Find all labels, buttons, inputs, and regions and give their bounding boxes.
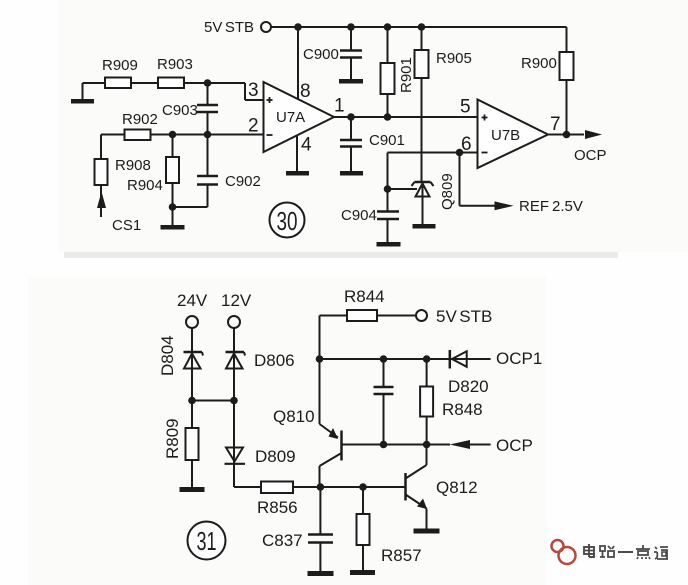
capacitor (unnamed, Q810 base) — [374, 359, 394, 445]
svg-text:7: 7 — [550, 114, 561, 135]
resistor R905 — [415, 27, 472, 181]
node 24V terminal — [177, 291, 208, 328]
svg-text:U7A: U7A — [276, 109, 305, 126]
node junction R904 top — [169, 131, 177, 139]
wire Q810 base / OCP rail — [343, 444, 451, 446]
ground under C900 — [339, 79, 363, 84]
svg-text:5VSTB: 5VSTB — [204, 19, 254, 36]
node junction R904 C902 — [169, 203, 177, 211]
resistor R908 — [95, 135, 151, 186]
diode D809 — [225, 401, 296, 488]
svg-text:D804: D804 — [158, 335, 177, 376]
svg-text:D806: D806 — [254, 351, 295, 370]
svg-text:C902: C902 — [225, 173, 261, 190]
svg-text:C904: C904 — [341, 207, 377, 224]
wire R909 R903 rail — [83, 83, 265, 100]
resistor R909 — [102, 57, 138, 88]
node OCP output arrow — [574, 130, 607, 164]
ground under C901 — [340, 171, 363, 176]
node junction C902 top — [204, 131, 212, 139]
pin 5 label — [460, 97, 471, 118]
node junction R903 C903 — [204, 79, 212, 87]
ground left bias — [71, 83, 94, 104]
node junction top rail R905 — [418, 23, 426, 31]
ground under Q809 — [413, 224, 436, 229]
node junction cap bottom — [380, 441, 388, 449]
resistor R903 — [157, 56, 193, 88]
svg-text:R905: R905 — [436, 50, 472, 67]
node OCP input arrow — [450, 436, 533, 455]
svg-text:4: 4 — [301, 135, 312, 156]
svg-text:1: 1 — [334, 96, 345, 117]
pin 4 label — [301, 135, 312, 156]
resistor R902 — [122, 111, 158, 140]
svg-text:5VSTB: 5VSTB — [436, 307, 492, 326]
zener diode Q809 — [412, 173, 457, 224]
node REF 2.5V arrow — [495, 198, 583, 215]
wire OCP1 rail — [320, 358, 491, 360]
node junction C901 — [347, 113, 355, 121]
capacitor C837 — [262, 487, 333, 571]
pin 8 label — [300, 81, 311, 102]
svg-text:24V: 24V — [177, 291, 208, 310]
svg-text:8: 8 — [300, 81, 311, 102]
wire pin 8 branch — [297, 27, 299, 100]
node junction top rail C900 — [347, 23, 355, 31]
node 5V STB (top) — [204, 19, 271, 36]
svg-text:R902: R902 — [122, 111, 158, 128]
pin 1 label — [334, 96, 345, 117]
wire R844 left branch down — [319, 316, 321, 425]
resistor R904 — [127, 135, 179, 226]
node junction R848 bottom — [423, 441, 431, 449]
svg-text:CS1: CS1 — [112, 217, 141, 234]
node junction OCP1 rail left — [316, 355, 324, 363]
resistor R844 — [320, 287, 417, 321]
diode D806 — [226, 328, 295, 401]
ground under C837 — [308, 571, 334, 576]
node junction output R900 — [563, 131, 571, 139]
svg-text:R901: R901 — [398, 57, 415, 93]
svg-text:R904: R904 — [127, 177, 163, 194]
capacitor C904 — [341, 189, 399, 242]
svg-text:Q810: Q810 — [273, 407, 315, 426]
svg-text:R856: R856 — [257, 498, 298, 517]
wire U7B output — [548, 134, 584, 136]
svg-text:OCP1: OCP1 — [496, 349, 542, 368]
diode D820 (OCP1) — [450, 349, 542, 369]
resistor R848 — [420, 359, 489, 445]
svg-text:Q809: Q809 — [439, 173, 456, 210]
capacitor C902 — [173, 135, 261, 208]
resistor R857 — [357, 487, 422, 570]
svg-text:31: 31 — [197, 526, 217, 556]
op-amp U7B — [478, 100, 549, 169]
node 5V STB terminal (bottom) — [416, 307, 492, 326]
svg-text:30: 30 — [277, 206, 298, 236]
diode D804 — [158, 328, 203, 401]
svg-text:OCP: OCP — [496, 436, 533, 455]
node junction top rail pin8 — [294, 23, 302, 31]
svg-text:R900: R900 — [521, 55, 557, 72]
wire top rail 5V STB — [271, 26, 567, 28]
svg-text:R909: R909 — [102, 57, 138, 74]
ground under R857 — [350, 570, 375, 575]
node junction R857 — [359, 483, 367, 491]
svg-text:Q812: Q812 — [436, 478, 478, 497]
node circle 31 — [188, 522, 226, 560]
capacitor C901 — [340, 117, 405, 171]
svg-text:C903: C903 — [162, 102, 198, 119]
pin 7 label — [550, 114, 561, 135]
svg-text:C900: C900 — [303, 46, 339, 63]
node junction C837 — [317, 483, 325, 491]
wire U7A output to U7B pin5 — [334, 116, 478, 118]
node junction top rail R901 — [384, 23, 392, 31]
svg-text:D820: D820 — [448, 377, 489, 396]
svg-text:R857: R857 — [381, 546, 422, 565]
node junction cap top — [380, 355, 388, 363]
resistor R809 — [163, 401, 199, 488]
svg-text:C901: C901 — [369, 132, 405, 149]
svg-text:R848: R848 — [442, 400, 483, 419]
scan paper areas — [58, 0, 688, 252]
node junction R901 bottom — [384, 113, 392, 121]
op-amp U7A — [264, 82, 335, 152]
wire diode junction rail — [192, 400, 234, 402]
wire pin 6 net — [388, 153, 478, 190]
svg-text:2: 2 — [248, 116, 259, 137]
watermark logo icon — [552, 540, 576, 564]
resistor R856 — [234, 482, 405, 518]
wire pin 4 + ground — [286, 135, 309, 176]
pin 2 label — [248, 116, 259, 137]
svg-text:6: 6 — [461, 134, 472, 155]
node CS1 input arrow — [97, 185, 141, 234]
transistor Q810 — [273, 407, 342, 487]
ground under C904 — [377, 242, 401, 247]
wire REF branch — [460, 153, 496, 206]
node circle 30 — [270, 203, 305, 238]
svg-text:3: 3 — [248, 80, 259, 101]
svg-text:R844: R844 — [344, 287, 385, 306]
node junction D806 — [230, 397, 238, 405]
svg-text:U7B: U7B — [491, 127, 520, 144]
capacitor C903 — [162, 83, 218, 135]
node junction pin6 — [456, 149, 464, 157]
resistor R900 — [521, 27, 574, 135]
node junction C904 — [384, 185, 392, 193]
svg-text:R809: R809 — [163, 418, 182, 459]
capacitor C900 — [303, 27, 362, 79]
wire pin 2 rail — [101, 134, 264, 136]
ground under Q812 — [414, 529, 440, 534]
ground under R809 — [180, 487, 205, 492]
svg-text:OCP: OCP — [574, 147, 607, 164]
transistor Q812 — [406, 445, 478, 529]
resistor R901 — [381, 27, 416, 117]
ground under R904 — [161, 225, 185, 230]
pin 3 label — [248, 80, 259, 101]
watermark text 电路一点通 — [584, 544, 668, 559]
svg-text:R908: R908 — [115, 157, 151, 174]
node junction D804 — [188, 397, 196, 405]
node junction R848 top — [423, 355, 431, 363]
svg-text:12V: 12V — [221, 291, 252, 310]
svg-text:5: 5 — [460, 97, 471, 118]
pin 6 label — [461, 134, 472, 155]
svg-text:D809: D809 — [255, 447, 296, 466]
svg-text:R903: R903 — [157, 56, 193, 73]
node 12V terminal — [221, 291, 252, 328]
svg-text:C837: C837 — [262, 531, 303, 550]
